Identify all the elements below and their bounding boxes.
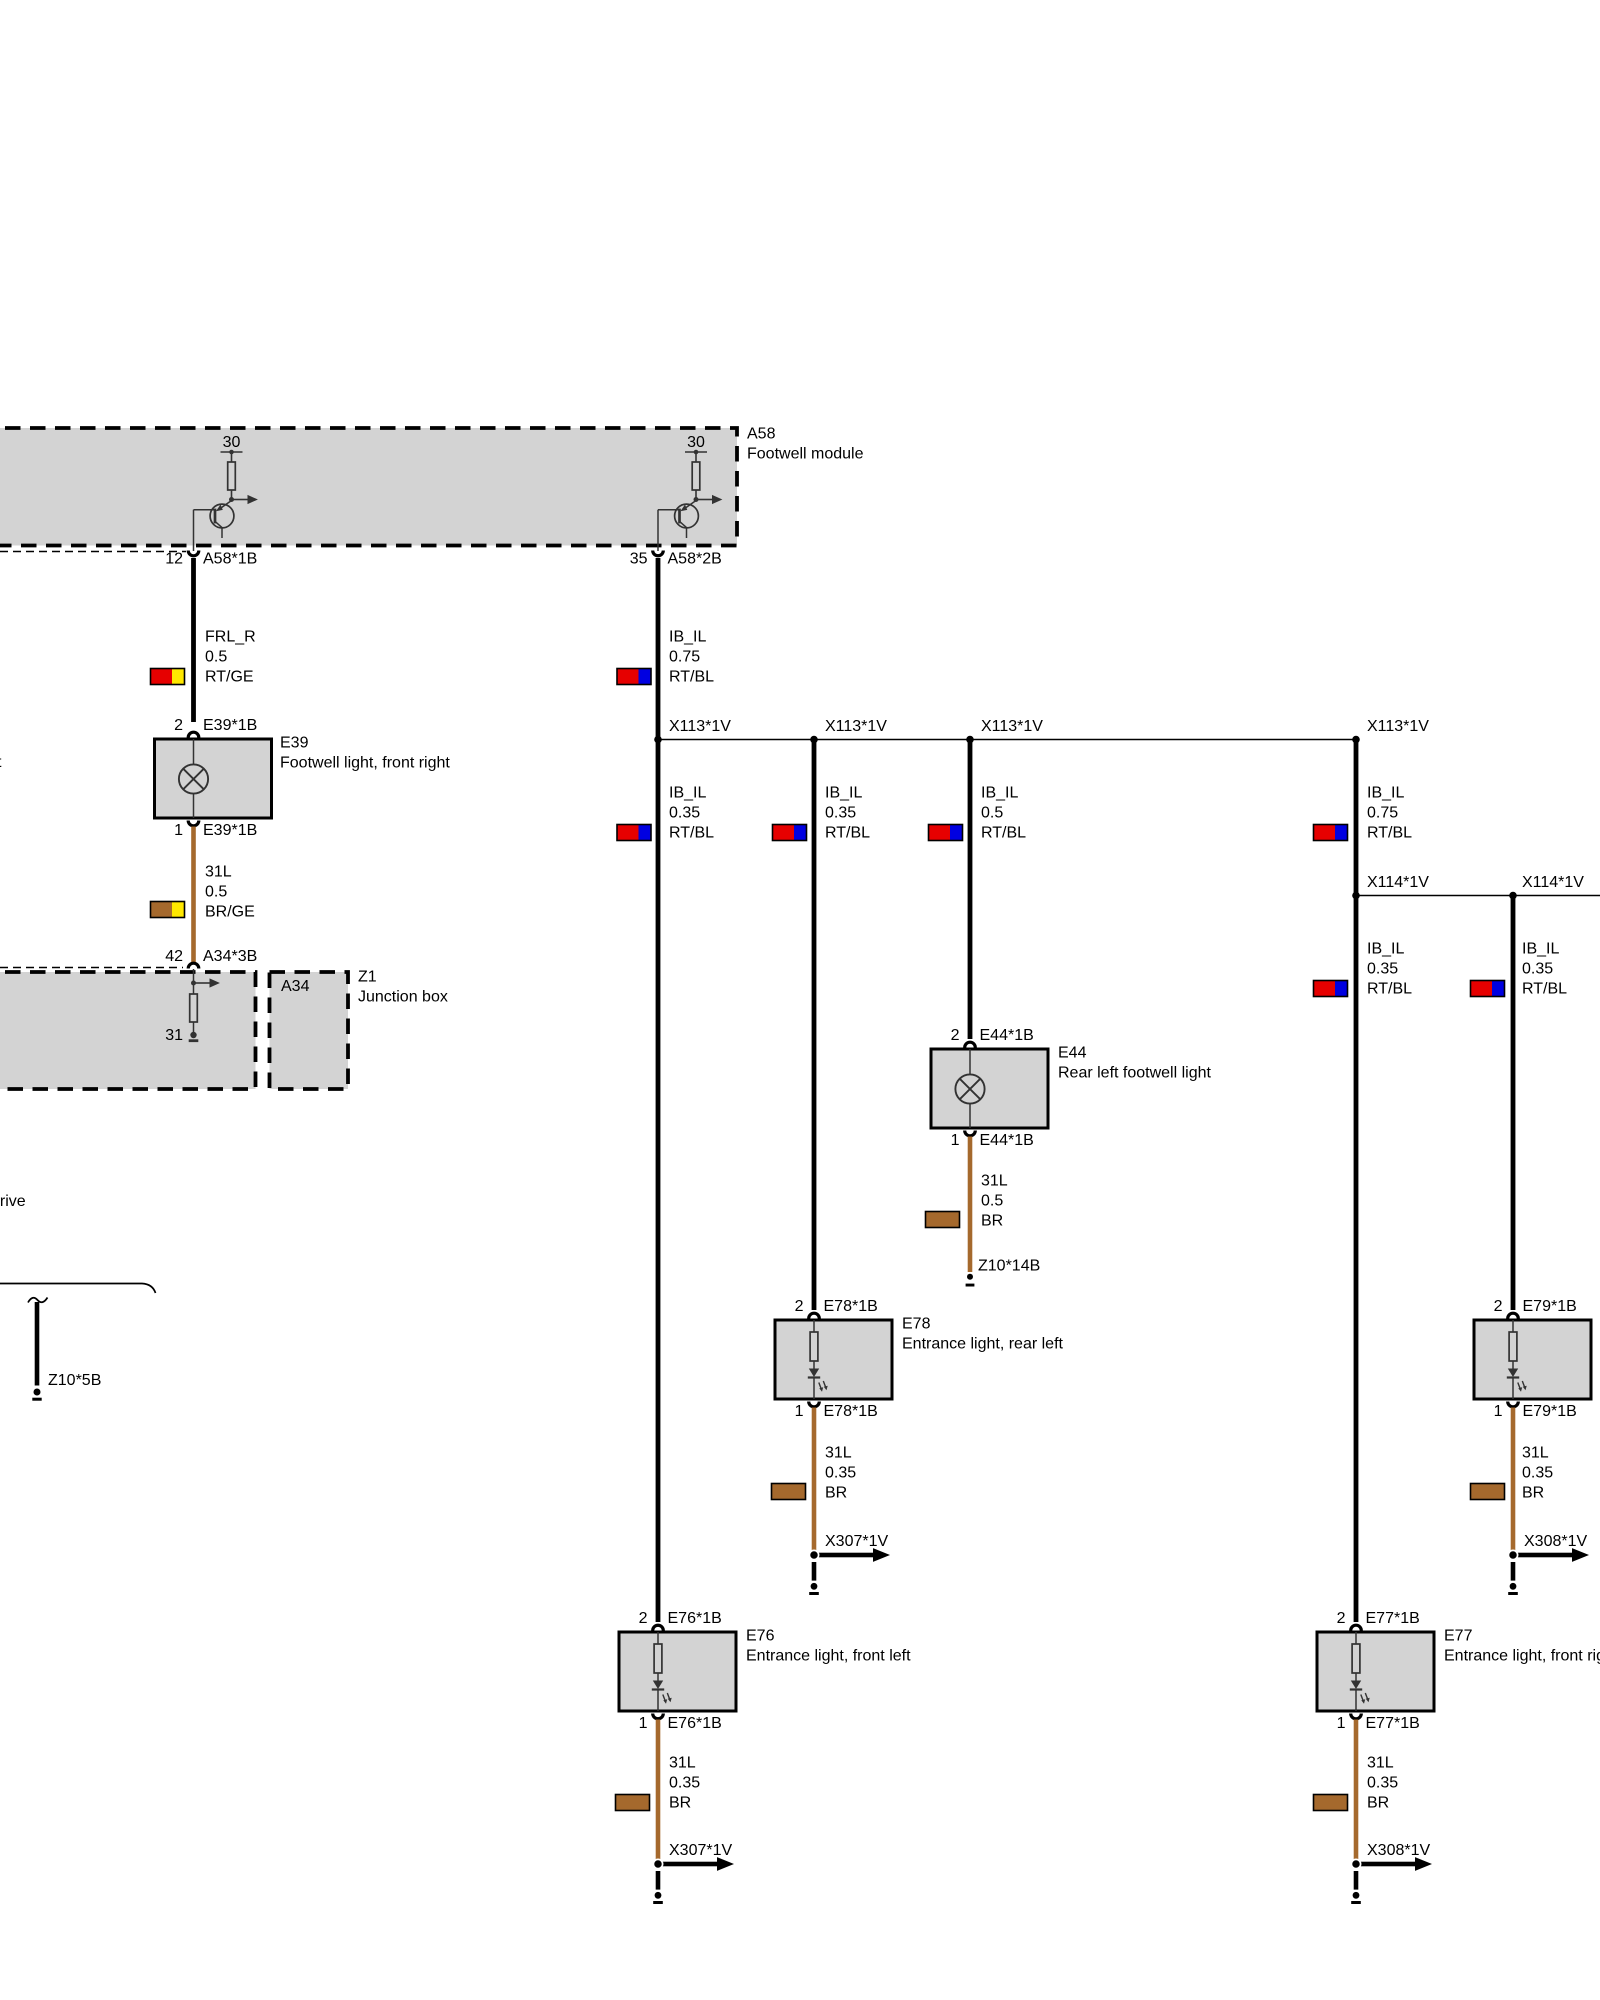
svg-text:Entrance light, rear left: Entrance light, rear left: [902, 1336, 1064, 1353]
svg-text:RT/BL: RT/BL: [825, 825, 870, 842]
svg-text:BR/GE: BR/GE: [205, 904, 255, 921]
svg-text:30: 30: [223, 434, 241, 451]
svg-text:Entrance light, front left: Entrance light, front left: [746, 1648, 911, 1665]
svg-text:A58: A58: [747, 426, 776, 443]
svg-text:Z10*5B: Z10*5B: [48, 1372, 101, 1389]
ground tail (E77 / X308): [1351, 1871, 1361, 1904]
svg-text:0.35: 0.35: [1522, 961, 1553, 978]
svg-text:E79*1B: E79*1B: [1523, 1403, 1577, 1420]
colour box BR (E76): [616, 1795, 650, 1811]
svg-text:Entrance light, front right: Entrance light, front right: [1444, 1648, 1600, 1665]
svg-text:0.5: 0.5: [205, 884, 227, 901]
wire 31L 0.35 BR (E76 pin1 to X307): [656, 1720, 661, 1860]
svg-text:2: 2: [1494, 1298, 1503, 1315]
wire IB_IL 0.35 RT/BL (X114 to E79 pin2): [1511, 897, 1516, 1310]
svg-text:1: 1: [951, 1132, 960, 1149]
inner dashed connector boundary A58*1B: [0, 551, 186, 553]
label E44 / Rear left footwell light: [1058, 1045, 1212, 1082]
label wire 31L 0.35 BR (E78): [825, 1445, 856, 1502]
module A34 (dashed box): [270, 972, 349, 1089]
svg-text:1: 1: [795, 1403, 804, 1420]
connector arrow X308*1V (E79): [1508, 1533, 1589, 1562]
colour box BR (E77): [1314, 1795, 1348, 1811]
svg-text:2: 2: [795, 1298, 804, 1315]
colour box RT/BL (E76 branch): [617, 825, 651, 841]
label E39 / Footwell light, front right: [280, 735, 450, 772]
label A58 / Footwell module: [747, 426, 864, 463]
colour box RT/BL (X114 feed): [1314, 825, 1348, 841]
pin 42 A34*3B: [165, 948, 257, 969]
node rail X113*1V: [658, 739, 1356, 741]
svg-text:IB_IL: IB_IL: [825, 785, 862, 802]
wire IB_IL 0.35 RT/BL (X114 to E77 pin2): [1354, 897, 1359, 1622]
svg-text:Footwell light, front right: Footwell light, front right: [280, 755, 450, 772]
wire IB_IL 0.35 RT/BL (X113 to E78 pin2): [812, 741, 817, 1310]
svg-text:E76*1B: E76*1B: [668, 1715, 722, 1732]
pin 2 E78*1B: [795, 1298, 878, 1319]
svg-text:RT/BL: RT/BL: [669, 669, 714, 686]
pin 2 E76*1B: [639, 1610, 722, 1631]
transistor driver U1 (terminal 30, resistor, output pin 12): [194, 434, 258, 551]
colour box RT/BL (E77 branch): [1314, 981, 1348, 997]
LED lamp E77 entrance light front right: [1317, 1632, 1434, 1711]
svg-text:Footwell module: Footwell module: [747, 446, 864, 463]
svg-text:E78*1B: E78*1B: [824, 1403, 878, 1420]
label wire 31L 0.35 BR (E77): [1367, 1755, 1398, 1812]
svg-text:1: 1: [174, 822, 183, 839]
ground tail (E78 / X307): [809, 1562, 819, 1595]
svg-text:Junction box: Junction box: [358, 989, 448, 1006]
label E78 / Entrance light, rear left: [902, 1316, 1064, 1353]
wire IB_IL 0.35 RT/BL (X113 to E76 pin2): [656, 741, 661, 1622]
svg-text:X307*1V: X307*1V: [825, 1533, 888, 1550]
label wire IB_IL 0.35 RT/BL (E79): [1522, 941, 1567, 998]
colour box BR (E78): [772, 1484, 806, 1500]
label Z1 / Junction box: [358, 969, 448, 1006]
colour box RT/BL (E44 branch): [929, 825, 963, 841]
svg-text:X113*1V: X113*1V: [1367, 718, 1429, 735]
svg-text:E39*1B: E39*1B: [203, 822, 257, 839]
connector arrow X307*1V (E76): [653, 1842, 734, 1871]
fuse F (Z1 internal): [190, 994, 198, 1032]
svg-text:1: 1: [1494, 1403, 1503, 1420]
svg-text:E77*1B: E77*1B: [1366, 1610, 1420, 1627]
svg-text:0.35: 0.35: [1367, 961, 1398, 978]
svg-text:31: 31: [165, 1027, 183, 1044]
colour box RT/BL (E78 branch): [773, 825, 807, 841]
svg-text:E44*1B: E44*1B: [980, 1027, 1034, 1044]
svg-text:X114*1V: X114*1V: [1367, 874, 1429, 891]
svg-text:X308*1V: X308*1V: [1524, 1533, 1587, 1550]
pin 2 E39*1B: [174, 717, 257, 738]
svg-text:0.35: 0.35: [825, 1465, 856, 1482]
terminal 31 (Z1 internal ground): [165, 1027, 198, 1044]
label wire IB_IL 0.5 RT/BL (E44): [981, 785, 1026, 842]
svg-text:A34: A34: [281, 978, 310, 995]
svg-text:31L: 31L: [981, 1173, 1008, 1190]
svg-text:IB_IL: IB_IL: [1367, 785, 1404, 802]
svg-text:BR: BR: [825, 1485, 847, 1502]
pin 2 E79*1B: [1494, 1298, 1577, 1319]
pin 1 E78*1B: [795, 1402, 878, 1421]
svg-text:0.35: 0.35: [669, 805, 700, 822]
wire IB_IL 0.75 RT/BL (A58 pin35 to X113): [656, 558, 661, 740]
svg-text:X308*1V: X308*1V: [1367, 1842, 1430, 1859]
label A34: [281, 978, 310, 995]
svg-text:E39*1B: E39*1B: [203, 717, 257, 734]
svg-text:31L: 31L: [205, 864, 232, 881]
svg-text:BR: BR: [1367, 1795, 1389, 1812]
svg-text:0.35: 0.35: [1367, 1775, 1398, 1792]
svg-text:A58*1B: A58*1B: [203, 551, 257, 568]
connector arrow X307*1V (E78): [809, 1533, 890, 1562]
node X113*1V (junction, col E44): [966, 718, 1043, 743]
wire FRL_R 0.5 RT/GE (A58 pin12 to E39 pin2): [191, 558, 196, 722]
wire 31L 0.5 BR (E44 pin1 to Z10*14B): [968, 1137, 973, 1273]
ground Z10*14B: [966, 1258, 1041, 1287]
svg-text:0.35: 0.35: [825, 805, 856, 822]
clipped label fragment (front right, off-canvas): [0, 754, 2, 771]
LED lamp E78 entrance light rear left: [775, 1320, 892, 1399]
pin 2 E44*1B: [951, 1027, 1034, 1048]
svg-text:0.75: 0.75: [1367, 805, 1398, 822]
svg-text:E44*1B: E44*1B: [980, 1132, 1034, 1149]
svg-text:IB_IL: IB_IL: [669, 629, 706, 646]
wire 31L 0.35 BR (E78 pin1 to X307): [812, 1408, 817, 1551]
wire 31L 0.35 BR (E79 pin1 to X308): [1511, 1408, 1516, 1551]
label wire 31L 0.5 BR/GE: [205, 864, 255, 921]
node rail X114*1V: [1356, 895, 1600, 897]
svg-text:31L: 31L: [1522, 1445, 1549, 1462]
svg-text:BR: BR: [1522, 1485, 1544, 1502]
pin 1 E44*1B: [951, 1131, 1034, 1150]
Z1 internal node + signal arrow: [191, 969, 220, 994]
wire bundle curve (off-canvas harness): [0, 1284, 156, 1294]
svg-text:IB_IL: IB_IL: [981, 785, 1018, 802]
svg-text:E77*1B: E77*1B: [1366, 1715, 1420, 1732]
svg-text:1: 1: [639, 1715, 648, 1732]
ground Z10*5B: [32, 1372, 101, 1401]
colour box BR/GE (brown/yellow): [151, 902, 185, 918]
svg-text:X307*1V: X307*1V: [669, 1842, 732, 1859]
ground tail (E79 / X308): [1508, 1562, 1518, 1595]
svg-text:31L: 31L: [1367, 1755, 1394, 1772]
ground tail (E76 / X307): [653, 1871, 663, 1904]
node X114*1V (junction, col E79): [1509, 874, 1584, 899]
svg-text:Rear left footwell light: Rear left footwell light: [1058, 1065, 1212, 1082]
svg-text:42: 42: [165, 948, 183, 965]
module A58 Footwell module (dashed box): [0, 428, 737, 546]
svg-text:drive: drive: [0, 1193, 26, 1210]
svg-text:12: 12: [165, 551, 183, 568]
wire IB_IL 0.5 RT/BL (X113 to E44 pin2): [968, 741, 973, 1039]
svg-text:X114*1V: X114*1V: [1522, 874, 1584, 891]
svg-text:IB_IL: IB_IL: [669, 785, 706, 802]
svg-text:E77: E77: [1444, 1628, 1473, 1645]
connector arrow X308*1V (E77): [1351, 1842, 1432, 1871]
svg-text:RT/BL: RT/BL: [1367, 981, 1412, 998]
label wire IB_IL 0.75 RT/BL (X114 feed): [1367, 785, 1412, 842]
svg-text:X113*1V: X113*1V: [981, 718, 1043, 735]
svg-text:31L: 31L: [669, 1755, 696, 1772]
label wire IB_IL 0.35 RT/BL (E77): [1367, 941, 1412, 998]
inner dashed connector boundary A34*3B: [0, 967, 183, 969]
pin 2 E77*1B: [1337, 1610, 1420, 1631]
pin 12 A58*1B: [165, 551, 257, 568]
colour box RT/BL (E79 branch): [1471, 981, 1505, 997]
pin 1 E77*1B: [1337, 1714, 1420, 1733]
svg-text:0.35: 0.35: [669, 1775, 700, 1792]
LED lamp E79 entrance light rear right: [1474, 1320, 1591, 1399]
LED lamp E76 entrance light front left: [619, 1632, 736, 1711]
label wire 31L 0.35 BR (E76): [669, 1755, 700, 1812]
lamp E39 footwell light front right: [155, 739, 272, 818]
svg-text:0.75: 0.75: [669, 649, 700, 666]
svg-text:E76: E76: [746, 1628, 775, 1645]
svg-text:BR: BR: [669, 1795, 691, 1812]
svg-text:30: 30: [687, 434, 705, 451]
svg-text:IB_IL: IB_IL: [1522, 941, 1559, 958]
label wire 31L 0.5 BR (E44): [981, 1173, 1008, 1230]
svg-text:Z1: Z1: [358, 969, 377, 986]
pin 35 A58*2B: [630, 551, 722, 568]
colour box BR (E44): [926, 1212, 960, 1228]
svg-text:0.5: 0.5: [981, 1193, 1003, 1210]
wire (to ground Z10*5B): [35, 1302, 40, 1386]
pin 1 E79*1B: [1494, 1402, 1577, 1421]
label wire IB_IL 0.35 RT/BL (E76): [669, 785, 714, 842]
node X114*1V (junction, col E77): [1352, 874, 1429, 899]
svg-text:RT/BL: RT/BL: [981, 825, 1026, 842]
svg-text:2: 2: [951, 1027, 960, 1044]
svg-text:IB_IL: IB_IL: [1367, 941, 1404, 958]
svg-text:0.5: 0.5: [981, 805, 1003, 822]
pin 1 E39*1B: [174, 821, 257, 840]
svg-text:E44: E44: [1058, 1045, 1087, 1062]
colour box BR (E79): [1471, 1484, 1505, 1500]
svg-text:E76*1B: E76*1B: [668, 1610, 722, 1627]
wire 31L 0.5 BR/GE (E39 pin1 to A34 pin42): [191, 827, 196, 963]
svg-text:X113*1V: X113*1V: [825, 718, 887, 735]
label wire FRL_R 0.5 RT/GE: [205, 629, 256, 686]
svg-text:RT/GE: RT/GE: [205, 669, 254, 686]
twisted-pair marker: [28, 1298, 48, 1303]
svg-text:1: 1: [1337, 1715, 1346, 1732]
node X113*1V (junction, col E78): [810, 718, 887, 743]
label wire IB_IL 0.35 RT/BL (E78): [825, 785, 870, 842]
clipped label fragment (drive, off-canvas): [0, 1193, 26, 1210]
wire 31L 0.35 BR (E77 pin1 to X308): [1354, 1720, 1359, 1860]
transistor driver U2 (terminal 30, resistor, output pin 35): [658, 434, 722, 551]
svg-text:0.5: 0.5: [205, 649, 227, 666]
wire IB_IL 0.75 RT/BL (X113 to X114): [1354, 741, 1359, 896]
svg-text:E78*1B: E78*1B: [824, 1298, 878, 1315]
svg-text:RT/BL: RT/BL: [1522, 981, 1567, 998]
svg-text:E79*1B: E79*1B: [1523, 1298, 1577, 1315]
label E76 / Entrance light, front left: [746, 1628, 911, 1665]
node X113*1V (junction, col E76): [654, 718, 731, 743]
junction box Z1 (dashed box): [0, 972, 256, 1089]
colour box RT/GE (red/yellow): [151, 669, 185, 685]
svg-text:FRL_R: FRL_R: [205, 629, 256, 646]
svg-text:A34*3B: A34*3B: [203, 948, 257, 965]
label wire IB_IL 0.75 RT/BL: [669, 629, 714, 686]
node X113*1V (junction, col E77): [1352, 718, 1429, 743]
svg-text:E39: E39: [280, 735, 309, 752]
label wire 31L 0.35 BR (E79): [1522, 1445, 1553, 1502]
svg-text:Z10*14B: Z10*14B: [978, 1258, 1040, 1275]
svg-text:0.35: 0.35: [1522, 1465, 1553, 1482]
label E77 / Entrance light, front right: [1444, 1628, 1600, 1665]
colour box RT/BL (red/blue): [617, 669, 651, 685]
svg-text:BR: BR: [981, 1213, 1003, 1230]
svg-text:31L: 31L: [825, 1445, 852, 1462]
svg-text:RT/BL: RT/BL: [1367, 825, 1412, 842]
svg-text:2: 2: [174, 717, 183, 734]
svg-text:A58*2B: A58*2B: [668, 551, 722, 568]
svg-text:2: 2: [1337, 1610, 1346, 1627]
lamp E44 rear left footwell light: [931, 1049, 1048, 1128]
svg-text:RT/BL: RT/BL: [669, 825, 714, 842]
svg-text:X113*1V: X113*1V: [669, 718, 731, 735]
svg-text:2: 2: [639, 1610, 648, 1627]
pin 1 E76*1B: [639, 1714, 722, 1733]
svg-text:35: 35: [630, 551, 648, 568]
svg-text:E78: E78: [902, 1316, 931, 1333]
